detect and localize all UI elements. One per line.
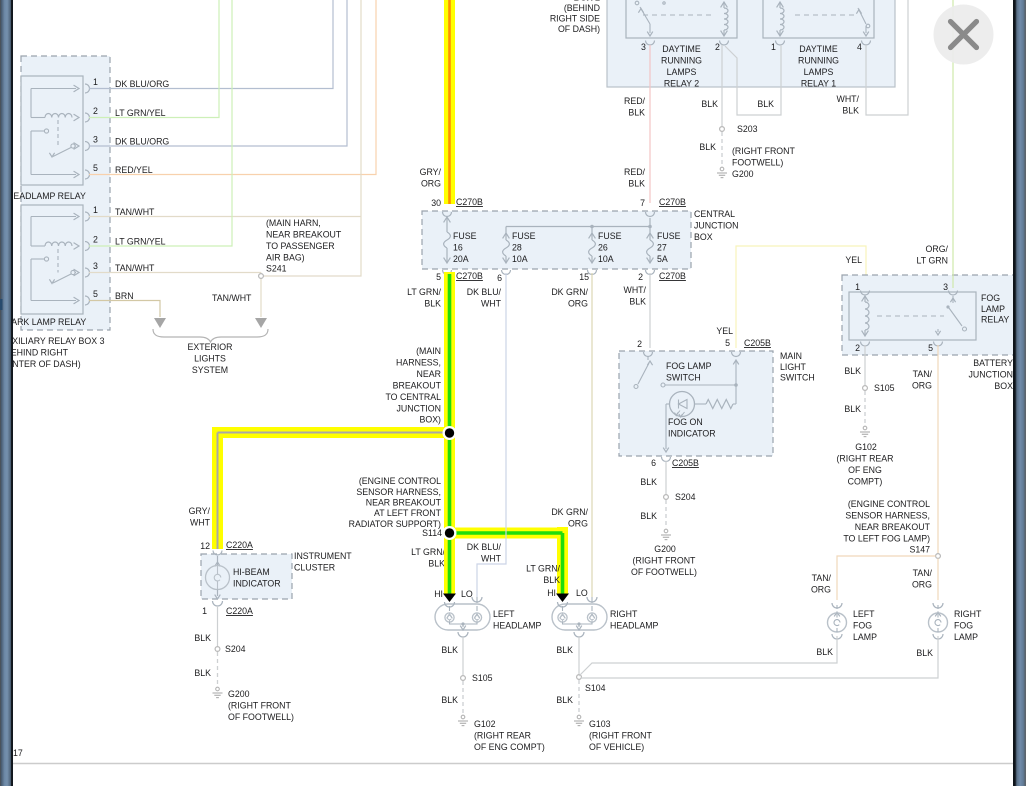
svg-text:BLK: BLK	[916, 648, 933, 658]
component RIGHT FOG LAMP	[933, 603, 943, 608]
svg-text:JUNCTION: JUNCTION	[397, 403, 441, 413]
svg-text:5: 5	[928, 343, 933, 353]
svg-text:BLK: BLK	[556, 695, 573, 705]
svg-text:HI: HI	[547, 588, 556, 598]
svg-text:NEAR BREAKOUT: NEAR BREAKOUT	[855, 522, 931, 532]
svg-text:C220A: C220A	[226, 606, 253, 616]
svg-text:HEADLAMP: HEADLAMP	[610, 621, 659, 631]
wire BLK right headlamp to S104	[578, 646, 580, 674]
wire TAN/ORG S147 to left fog lamp	[837, 556, 936, 600]
svg-text:RIGHT: RIGHT	[610, 609, 638, 619]
wire TAN/WHT pin3 park lamp relay	[89, 272, 261, 274]
svg-text:NEAR BREAKOUT: NEAR BREAKOUT	[366, 498, 442, 508]
svg-text:BOX: BOX	[994, 381, 1013, 391]
svg-text:C270B: C270B	[456, 197, 483, 207]
fog lamp switch internals	[634, 385, 638, 389]
svg-text:DAYTIME: DAYTIME	[662, 44, 701, 54]
svg-text:FOOTWELL): FOOTWELL)	[732, 158, 783, 168]
svg-text:LT GRN: LT GRN	[917, 256, 948, 266]
box BATTERY JUNCTION BOX	[842, 275, 1020, 355]
svg-text:TO LEFT FOG LAMP): TO LEFT FOG LAMP)	[843, 533, 930, 543]
svg-text:DK BLU/: DK BLU/	[467, 287, 502, 297]
wire GRY/ORG highlighted (yellow) from top to pin 30	[444, 0, 455, 204]
svg-text:FOG: FOG	[981, 293, 1000, 303]
svg-text:TAN/WHT: TAN/WHT	[115, 207, 155, 217]
svg-text:6: 6	[651, 458, 656, 468]
svg-text:RADIATOR SUPPORT): RADIATOR SUPPORT)	[349, 519, 441, 529]
node S114	[443, 526, 457, 540]
svg-text:BLK: BLK	[640, 511, 657, 521]
svg-text:HARNESS,: HARNESS,	[396, 358, 441, 368]
svg-text:1: 1	[93, 205, 98, 215]
ground G200 cluster	[216, 687, 220, 691]
svg-text:30: 30	[431, 198, 441, 208]
svg-text:S114: S114	[422, 528, 442, 538]
svg-text:HI-BEAM: HI-BEAM	[233, 567, 270, 577]
relay DAYTIME RUNNING LAMPS RELAY 1 box	[763, 0, 874, 38]
brace exterior lights system	[153, 329, 268, 342]
wire BLK S104 to G103 dashed	[578, 680, 580, 713]
svg-text:DK GRN/: DK GRN/	[551, 507, 588, 517]
svg-text:SWITCH: SWITCH	[666, 373, 701, 383]
relay PARK LAMP RELAY inner box	[21, 205, 83, 314]
svg-text:WHT: WHT	[190, 518, 211, 528]
svg-text:5: 5	[725, 338, 730, 348]
wire LT GRN/BLK highlighted S114 down to left headlamp HI	[444, 533, 455, 594]
svg-text:BLK: BLK	[441, 645, 458, 655]
svg-text:LO: LO	[576, 588, 588, 598]
pin 5 fog relay	[934, 342, 943, 347]
svg-text:LEFT: LEFT	[493, 609, 515, 619]
splice S203	[720, 127, 725, 132]
close button X	[934, 5, 994, 65]
svg-text:S104: S104	[585, 683, 606, 693]
svg-text:YEL: YEL	[716, 326, 733, 336]
svg-text:MAIN: MAIN	[780, 351, 802, 361]
fuse 16 20A	[444, 217, 451, 222]
wire WHT/BLK from DRL relay1 pin4	[866, 0, 908, 115]
svg-text:BLK: BLK	[701, 99, 718, 109]
wire LT GRN/YEL pin2 headlamp relay	[89, 0, 219, 118]
svg-text:LT GRN/: LT GRN/	[526, 564, 560, 574]
svg-text:BLK: BLK	[428, 559, 445, 569]
svg-text:BOX): BOX)	[419, 415, 441, 425]
svg-text:BREAKOUT: BREAKOUT	[393, 380, 442, 390]
svg-text:5: 5	[93, 163, 98, 173]
svg-text:S147: S147	[909, 545, 930, 555]
svg-text:BLK: BLK	[628, 108, 645, 118]
wire fog indicator to pin 6	[665, 404, 667, 449]
svg-text:LEFT: LEFT	[853, 609, 875, 619]
svg-text:(RIGHT FRONT: (RIGHT FRONT	[228, 701, 292, 711]
wire BLK S203 to G200 dashed	[721, 132, 723, 165]
svg-text:S241: S241	[266, 264, 287, 274]
svg-text:DAYTIME: DAYTIME	[799, 44, 838, 54]
svg-text:C270B: C270B	[456, 271, 483, 281]
svg-text:TAN/: TAN/	[913, 568, 933, 578]
svg-text:1: 1	[771, 42, 776, 52]
svg-text:RIGHT: RIGHT	[954, 609, 982, 619]
svg-text:RELAY 2: RELAY 2	[664, 78, 699, 88]
svg-text:S105: S105	[874, 383, 895, 393]
svg-text:RED/: RED/	[624, 96, 646, 106]
svg-text:G102: G102	[855, 442, 877, 452]
pin 2 fog lamp switch	[644, 352, 653, 357]
svg-text:BLK: BLK	[441, 695, 458, 705]
svg-text:BLK: BLK	[424, 299, 441, 309]
wire BLK right fog lamp to S104	[581, 636, 938, 678]
splice S204 fog switch	[664, 495, 669, 500]
svg-text:ORG: ORG	[912, 381, 932, 391]
svg-text:HEADLAMP: HEADLAMP	[493, 621, 542, 631]
relay HEADLAMP RELAY inner box	[21, 76, 83, 185]
svg-text:LIGHT: LIGHT	[780, 362, 807, 372]
svg-text:SYSTEM: SYSTEM	[192, 365, 228, 375]
wire GRY/WHT highlighted branch to instrument cluster	[212, 427, 455, 438]
svg-text:3: 3	[93, 261, 98, 271]
svg-text:FUSE: FUSE	[657, 231, 681, 241]
svg-text:BATTERY: BATTERY	[973, 358, 1013, 368]
svg-text:BLK: BLK	[757, 99, 774, 109]
svg-text:BOX: BOX	[694, 232, 713, 242]
svg-text:BLK: BLK	[640, 477, 657, 487]
svg-text:(MAIN: (MAIN	[416, 346, 441, 356]
svg-text:DK BLU/ORG: DK BLU/ORG	[115, 79, 169, 89]
component RIGHT HEADLAMP	[552, 604, 607, 630]
component LEFT FOG LAMP	[832, 603, 842, 608]
svg-text:ORG: ORG	[912, 580, 932, 590]
separator line bottom	[13, 763, 1013, 765]
svg-text:LIGHTS: LIGHTS	[194, 354, 226, 364]
svg-text:SWITCH: SWITCH	[780, 373, 815, 383]
svg-text:2: 2	[855, 343, 860, 353]
svg-text:SENSOR HARNESS,: SENSOR HARNESS,	[356, 487, 441, 497]
svg-text:28: 28	[512, 243, 522, 253]
wire BLK from DRL relay2 pin2 to S203	[721, 45, 723, 126]
relay DRL1 internals	[795, 14, 855, 16]
svg-text:(RIGHT FRONT: (RIGHT FRONT	[732, 146, 796, 156]
svg-text:LT GRN/YEL: LT GRN/YEL	[115, 237, 166, 247]
svg-text:RELAY: RELAY	[981, 315, 1009, 325]
wire DK BLU/ORG pin3 headlamp relay	[89, 0, 347, 146]
svg-text:WHT: WHT	[481, 299, 502, 309]
svg-text:BLK: BLK	[816, 647, 833, 657]
wire LT GRN/BLK highlighted S218 to S114	[444, 433, 455, 533]
svg-text:ORG/: ORG/	[926, 244, 949, 254]
splice S105 left headlamp	[461, 676, 466, 681]
svg-text:S204: S204	[225, 644, 246, 654]
svg-text:C205B: C205B	[744, 338, 771, 348]
splice S147	[936, 554, 941, 559]
wire BLK fog switch pin6 to S204	[665, 461, 667, 494]
svg-text:20A: 20A	[453, 254, 469, 264]
box FOG LAMP SWITCH	[619, 351, 773, 456]
pin 15 bottom	[588, 270, 597, 275]
relay FOG LAMP RELAY inner box	[849, 292, 976, 340]
component FOG ON INDICATOR	[670, 392, 695, 417]
ground G102 left	[461, 715, 465, 719]
svg-text:BLK: BLK	[556, 645, 573, 655]
svg-text:FUSE: FUSE	[453, 231, 477, 241]
svg-text:G102: G102	[474, 719, 496, 729]
pin 7 C270B	[646, 212, 655, 217]
fog relay coil	[862, 296, 869, 301]
svg-text:AT LEFT FRONT: AT LEFT FRONT	[374, 508, 442, 518]
svg-text:16: 16	[453, 243, 463, 253]
svg-text:G103: G103	[589, 719, 611, 729]
svg-text:LAMPS: LAMPS	[804, 67, 834, 77]
relay PARK LAMP RELAY internals	[31, 216, 76, 218]
svg-text:G200: G200	[732, 169, 754, 179]
wire TAN/ORG fog relay pin5 to S147	[937, 345, 939, 553]
svg-text:3: 3	[641, 42, 646, 52]
svg-text:TAN/WHT: TAN/WHT	[212, 293, 252, 303]
wire TAN/WHT pin1 park lamp relay	[89, 216, 361, 218]
relay box AUXILIARY RELAY BOX 3 outline	[21, 56, 110, 330]
svg-text:7: 7	[640, 198, 645, 208]
svg-text:BLK: BLK	[844, 366, 861, 376]
svg-text:C270B: C270B	[659, 271, 686, 281]
svg-text:FUSE: FUSE	[512, 231, 536, 241]
svg-text:RED/: RED/	[624, 167, 646, 177]
wire BLK left fog lamp to S104	[579, 636, 837, 676]
pin 2 fog relay	[861, 342, 870, 347]
svg-text:C220A: C220A	[226, 540, 253, 550]
svg-text:C205B: C205B	[672, 458, 699, 468]
svg-text:FOG ON: FOG ON	[668, 417, 703, 427]
wire WHT/BLK from pin2 to fog lamp switch	[649, 273, 651, 348]
relay DRL2 internals	[643, 14, 713, 16]
pin 6 C205B	[662, 457, 671, 462]
wire DK BLU/ORG pin1 headlamp relay	[89, 0, 333, 89]
ground G103	[577, 715, 581, 719]
relay DAYTIME RUNNING LAMPS RELAY 2 box	[626, 0, 737, 38]
pin 2 C270B bottom	[646, 270, 655, 275]
svg-text:OF FOOTWELL): OF FOOTWELL)	[228, 712, 294, 722]
svg-text:ORG: ORG	[421, 179, 441, 189]
component LEFT HEADLAMP	[435, 604, 490, 630]
wire RED/BLK from DRL relay2 pin3	[649, 45, 651, 203]
svg-text:(ENGINE CONTROL: (ENGINE CONTROL	[848, 499, 930, 509]
svg-text:17: 17	[13, 748, 23, 758]
svg-text:NEAR BREAKOUT: NEAR BREAKOUT	[266, 230, 342, 240]
wire BLK dashed to G200	[665, 500, 667, 528]
pin hooks HEADLAMP RELAY	[85, 84, 90, 93]
wire LT GRN/BLK highlighted S114 right to right headlamp HI	[450, 528, 563, 539]
svg-text:PARK LAMP RELAY: PARK LAMP RELAY	[6, 317, 86, 327]
svg-text:WHT/: WHT/	[837, 94, 860, 104]
svg-text:GRY/: GRY/	[189, 506, 211, 516]
svg-text:DK BLU/ORG: DK BLU/ORG	[115, 137, 169, 147]
svg-text:10A: 10A	[598, 254, 614, 264]
svg-text:2: 2	[93, 235, 98, 245]
svg-text:4: 4	[857, 42, 862, 52]
svg-text:DK BLU/: DK BLU/	[467, 542, 502, 552]
wire BLK S105 to G102 dashed	[462, 681, 464, 713]
pin 3 fog relay	[949, 291, 958, 296]
svg-text:WHT/: WHT/	[624, 285, 647, 295]
svg-text:RELAY 1: RELAY 1	[801, 78, 836, 88]
svg-text:3: 3	[93, 135, 98, 145]
svg-text:TO CENTRAL: TO CENTRAL	[385, 392, 441, 402]
svg-text:OF ENG COMPT): OF ENG COMPT)	[474, 742, 545, 752]
svg-text:(RIGHT FRONT: (RIGHT FRONT	[589, 731, 653, 741]
box CENTRAL JUNCTION BOX	[422, 211, 691, 269]
svg-text:DK GRN/: DK GRN/	[551, 287, 588, 297]
arrow to exterior lights system (BRN)	[154, 318, 166, 328]
svg-text:BRN: BRN	[115, 291, 134, 301]
svg-text:NEAR: NEAR	[417, 369, 441, 379]
svg-text:27: 27	[657, 243, 667, 253]
svg-text:LT GRN/: LT GRN/	[407, 287, 441, 297]
wire BLK S204 to G200 dashed	[217, 652, 219, 685]
svg-text:JUNCTION: JUNCTION	[969, 370, 1013, 380]
pin hooks DRL relay 1	[776, 41, 785, 46]
svg-text:LAMPS: LAMPS	[667, 67, 697, 77]
svg-text:LAMP: LAMP	[853, 632, 877, 642]
wire TAN/ORG S147 to right fog lamp	[937, 559, 939, 601]
svg-text:C270B: C270B	[659, 197, 686, 207]
pin 1 fog relay	[861, 291, 870, 296]
pin hooks DRL relay 2	[646, 41, 655, 46]
svg-text:3: 3	[943, 282, 948, 292]
svg-text:BLK: BLK	[628, 179, 645, 189]
svg-text:AUXILIARY RELAY BOX 3: AUXILIARY RELAY BOX 3	[0, 336, 105, 346]
svg-text:AIR BAG): AIR BAG)	[266, 252, 305, 262]
svg-text:(RIGHT FRONT: (RIGHT FRONT	[633, 556, 697, 566]
box INSTRUMENT CLUSTER	[201, 554, 292, 599]
svg-text:RUNNING: RUNNING	[661, 56, 702, 66]
component HI-BEAM INDICATOR bulb	[213, 551, 222, 556]
wire LT GRN/YEL pin2 park lamp relay	[89, 0, 232, 246]
svg-text:BLK: BLK	[194, 668, 211, 678]
arrow to exterior lights system (TAN/WHT)	[255, 318, 267, 328]
svg-text:BLK: BLK	[629, 297, 646, 307]
svg-text:S105: S105	[472, 673, 493, 683]
svg-text:SENSOR HARNESS,: SENSOR HARNESS,	[845, 511, 930, 521]
relay HEADLAMP RELAY internals	[31, 88, 76, 90]
svg-text:GRY/: GRY/	[420, 167, 442, 177]
svg-text:RIGHT SIDE: RIGHT SIDE	[550, 14, 600, 24]
ground G200 right front footwell	[720, 167, 724, 171]
svg-text:ORG: ORG	[811, 585, 831, 595]
svg-text:TAN/: TAN/	[812, 573, 832, 583]
svg-text:26: 26	[598, 243, 608, 253]
svg-text:2: 2	[93, 106, 98, 116]
svg-text:ORG: ORG	[568, 299, 588, 309]
svg-text:G200: G200	[228, 689, 250, 699]
svg-text:RED/YEL: RED/YEL	[115, 165, 153, 175]
svg-text:OF FOOTWELL): OF FOOTWELL)	[631, 567, 697, 577]
svg-text:2: 2	[638, 272, 643, 282]
svg-text:EXTERIOR: EXTERIOR	[188, 342, 233, 352]
wire RED/YEL pin5 headlamp relay	[89, 0, 376, 175]
pin 30 C270B	[443, 212, 452, 217]
wire BLK fog relay pin2 to S105	[864, 345, 866, 385]
wire BRN pin5 park lamp relay	[89, 301, 160, 318]
svg-text:(MAIN HARN,: (MAIN HARN,	[266, 218, 321, 228]
svg-text:BLK: BLK	[842, 106, 859, 116]
svg-text:(BEHIND: (BEHIND	[564, 3, 600, 13]
splice S105 fog relay	[863, 386, 868, 391]
svg-text:5: 5	[436, 272, 441, 282]
svg-text:2: 2	[637, 339, 642, 349]
svg-text:1: 1	[855, 282, 860, 292]
svg-text:LT GRN/: LT GRN/	[411, 547, 445, 557]
wire BLK left headlamp to S105	[462, 646, 464, 675]
svg-text:TAN/: TAN/	[913, 369, 933, 379]
svg-text:(ENGINE CONTROL: (ENGINE CONTROL	[359, 476, 441, 486]
svg-text:5: 5	[93, 289, 98, 299]
splice S204 cluster	[215, 647, 220, 652]
wire YEL fog switch pin5 to fog relay pin1	[736, 246, 866, 348]
box daytime running lamps outer	[607, 0, 895, 87]
node S218	[443, 426, 457, 440]
svg-text:S203: S203	[737, 124, 758, 134]
svg-text:G200: G200	[654, 544, 676, 554]
wire BLK DRL relay2 pin2 to relay1 pin1	[725, 45, 781, 115]
svg-text:5A: 5A	[657, 254, 668, 264]
svg-text:BLK: BLK	[194, 633, 211, 643]
fog relay switch	[877, 315, 944, 317]
svg-text:15: 15	[579, 272, 589, 282]
svg-text:S204: S204	[675, 492, 696, 502]
svg-text:LT GRN/YEL: LT GRN/YEL	[115, 108, 166, 118]
svg-text:6: 6	[497, 273, 502, 283]
pin hooks PARK LAMP RELAY	[85, 212, 90, 221]
svg-text:INDICATOR: INDICATOR	[668, 429, 716, 439]
svg-text:CENTRAL: CENTRAL	[694, 209, 735, 219]
pin cap left headlamp HI	[443, 594, 456, 603]
svg-text:1: 1	[202, 606, 207, 616]
svg-text:HI: HI	[434, 589, 443, 599]
svg-text:TO PASSENGER: TO PASSENGER	[266, 241, 335, 251]
bus wire inside junction box	[506, 226, 650, 228]
splice S241	[260, 273, 262, 318]
wire LT GRN/BLK highlighted from pin5 down to S218	[444, 272, 455, 433]
pin 5 C205B fog lamp switch	[732, 352, 741, 357]
svg-text:1: 1	[93, 77, 98, 87]
svg-text:TAN/WHT: TAN/WHT	[115, 263, 155, 273]
ground G102 right rear of eng compt	[863, 426, 867, 430]
svg-text:INDICATOR: INDICATOR	[233, 579, 281, 589]
svg-text:BLK: BLK	[699, 142, 716, 152]
fuse 26 10A	[591, 227, 593, 234]
wire DK GRN/ORG from pin15 to right headlamp LO	[591, 273, 593, 597]
svg-text:JUNCTION: JUNCTION	[694, 221, 738, 231]
svg-text:10A: 10A	[512, 254, 528, 264]
svg-text:ORG: ORG	[568, 519, 588, 529]
pin cap right headlamp HI	[556, 594, 569, 603]
svg-text:(RIGHT REAR: (RIGHT REAR	[836, 454, 893, 464]
pin 5 C270B bottom	[443, 270, 452, 275]
right scrollbar	[1013, 0, 1026, 786]
svg-text:COMPT): COMPT)	[848, 477, 883, 487]
fuse 27 5A	[649, 218, 651, 233]
svg-text:BLK: BLK	[844, 404, 861, 414]
wire BLK dashed to G102	[864, 391, 866, 424]
ground G200 fog switch	[664, 529, 668, 533]
svg-text:LAMP: LAMP	[954, 632, 978, 642]
svg-text:OF DASH): OF DASH)	[558, 24, 600, 34]
pin 6 bottom	[502, 270, 511, 275]
wire TAN/WHT trunk to S241	[261, 0, 361, 276]
svg-text:LO: LO	[461, 589, 473, 599]
svg-text:12: 12	[200, 541, 210, 551]
wire DK BLU/WHT from pin6 to left headlamp LO	[477, 273, 506, 597]
svg-text:2: 2	[715, 42, 720, 52]
svg-text:WHT: WHT	[481, 554, 502, 564]
